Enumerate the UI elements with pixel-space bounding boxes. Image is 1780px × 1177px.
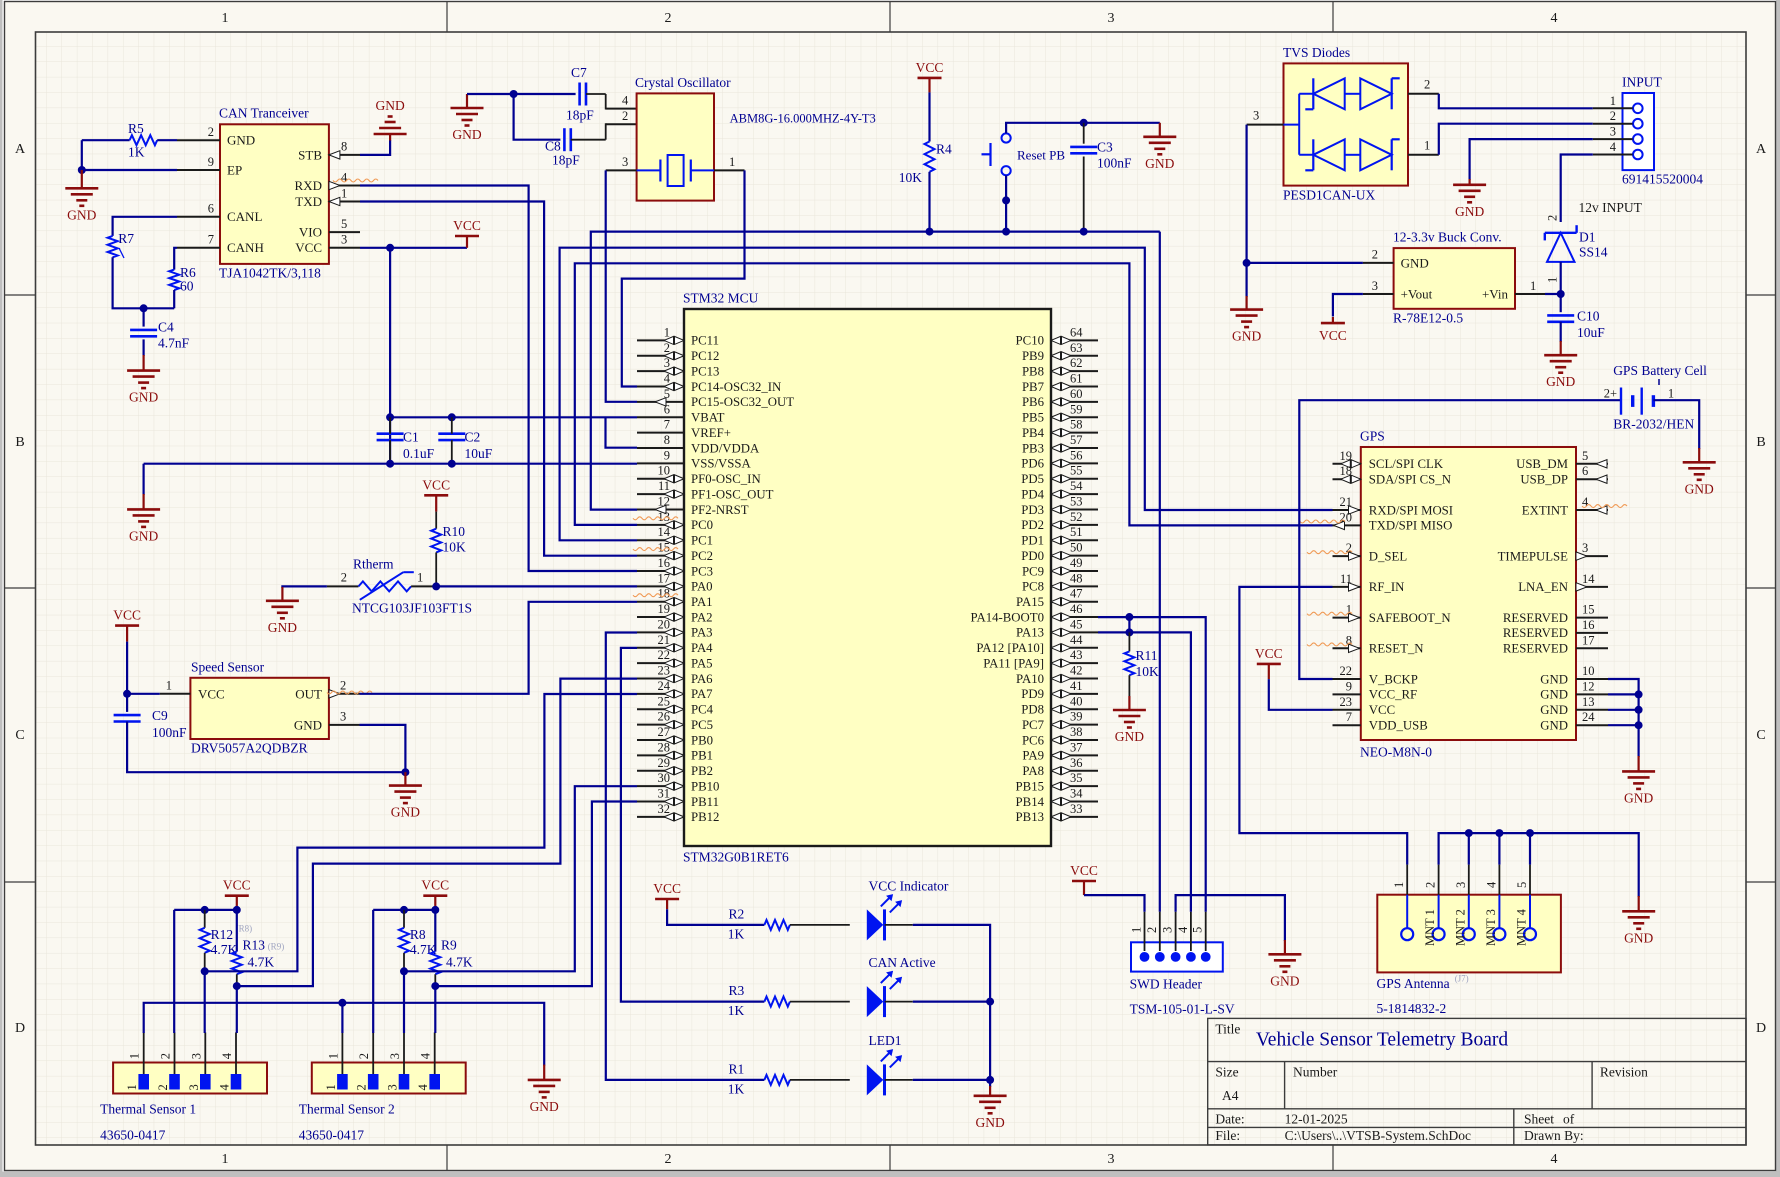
svg-text:1: 1	[1668, 387, 1674, 401]
svg-text:VCC_RF: VCC_RF	[1369, 688, 1417, 702]
svg-text:Crystal Oscillator: Crystal Oscillator	[635, 75, 731, 90]
svg-text:GND: GND	[1540, 719, 1568, 733]
speed pin 3 stub GND	[329, 724, 360, 726]
antenna pin 2	[1433, 928, 1445, 940]
INPUT pin 2	[1633, 119, 1643, 129]
antenna pin 4	[1493, 928, 1505, 940]
TVS internal bus	[1284, 94, 1314, 155]
svg-text:1K: 1K	[728, 1003, 745, 1018]
wire C10 to ground	[1560, 322, 1562, 342]
svg-text:1: 1	[1610, 94, 1616, 108]
wire C8 to crystal pin 2	[571, 139, 606, 141]
svg-text:5: 5	[341, 217, 347, 231]
svg-text:PC13: PC13	[691, 364, 719, 378]
power ground at Rtherm	[281, 587, 283, 601]
speed sensor U3 DRV5057A2QDBZR	[190, 678, 329, 739]
thermal 2 pin 1	[337, 1074, 348, 1090]
svg-text:VCC: VCC	[113, 608, 141, 623]
svg-text:PA6: PA6	[691, 672, 713, 686]
wire VCC rail thermal 1	[174, 909, 237, 911]
svg-text:2: 2	[355, 1084, 369, 1090]
junction	[986, 1076, 994, 1084]
svg-text:VCC: VCC	[223, 878, 251, 893]
svg-text:3: 3	[187, 1084, 201, 1090]
wire TVS pin 3 down to buck ground	[1247, 125, 1363, 263]
MCU pin 3 PC13	[637, 370, 684, 372]
svg-text:PA3: PA3	[691, 626, 713, 640]
svg-text:22: 22	[1340, 664, 1353, 678]
svg-text:3: 3	[1161, 927, 1175, 933]
crystal pin 3 stub	[606, 169, 637, 171]
svg-text:GND: GND	[1270, 973, 1299, 988]
wire R1 to LED	[790, 1079, 850, 1081]
svg-text:60: 60	[180, 279, 194, 294]
svg-text:Vehicle Sensor Telemetry Board: Vehicle Sensor Telemetry Board	[1256, 1030, 1508, 1051]
MCU pin 23 PA6	[637, 678, 684, 680]
resistor R12 4.7K	[204, 910, 206, 928]
svg-text:3: 3	[1108, 11, 1115, 26]
svg-text:2: 2	[664, 341, 670, 355]
wire R7 down to junction rail	[113, 257, 175, 308]
svg-text:1: 1	[1130, 927, 1144, 933]
GPS pin 17 RESERVED	[1576, 647, 1608, 649]
svg-text:C: C	[1756, 728, 1765, 743]
svg-text:PB7: PB7	[1022, 380, 1045, 394]
svg-text:R7: R7	[118, 231, 134, 246]
svg-text:GND: GND	[1455, 204, 1484, 219]
svg-text:3: 3	[622, 155, 628, 169]
svg-text:PC15-OSC32_OUT: PC15-OSC32_OUT	[691, 395, 794, 409]
svg-text:1: 1	[664, 325, 670, 339]
MCU pin 10 PF0-OSC_IN	[637, 478, 684, 480]
wire VDD branch to MCU pin 8	[606, 417, 638, 447]
svg-text:PC3: PC3	[691, 564, 713, 578]
power ground below speed sensor	[404, 772, 406, 785]
svg-text:NEO-M8N-0: NEO-M8N-0	[1360, 745, 1432, 760]
TVS pin 1 stub	[1408, 154, 1439, 156]
junction	[1635, 706, 1643, 714]
svg-text:NTCG103JF103FT1S: NTCG103JF103FT1S	[352, 601, 472, 616]
GPS pin 16 RESERVED	[1576, 632, 1608, 634]
svg-text:R11: R11	[1136, 648, 1158, 663]
thermal 1 pin 3	[200, 1074, 211, 1090]
MCU pin 60 PB6	[1051, 401, 1098, 403]
svg-text:GND: GND	[375, 98, 404, 113]
svg-text:Speed Sensor: Speed Sensor	[191, 660, 265, 675]
svg-text:VCC Indicator: VCC Indicator	[869, 879, 949, 894]
wire NRST rail to SWD header pin 2	[1159, 232, 1161, 912]
GPS pin 8 RESET_N	[1333, 647, 1361, 649]
wire speed OUT to MCU PA1 pin 18	[360, 602, 638, 694]
svg-text:VCC: VCC	[453, 218, 481, 233]
MCU pin 19 PA2	[637, 616, 684, 618]
svg-text:3: 3	[189, 1053, 203, 1059]
capacitor C10 10uF	[1547, 314, 1574, 317]
MCU pin 54 PD4	[1051, 493, 1098, 495]
svg-text:691415520004: 691415520004	[1622, 172, 1703, 187]
MCU pin 41 PD9	[1051, 693, 1098, 695]
thermal 1 pin 4	[231, 1074, 242, 1090]
MCU pin 15 PC2	[637, 555, 684, 557]
compile squiggle GPS pin 4 EXTINT	[1582, 505, 1627, 508]
svg-text:PA13: PA13	[1016, 626, 1044, 640]
svg-text:2: 2	[1424, 882, 1438, 888]
svg-text:D: D	[15, 1021, 25, 1036]
wire thermal2 pin3 sense to MCU PB10 pin 30	[404, 786, 637, 971]
svg-text:5-1814832-2: 5-1814832-2	[1377, 1001, 1447, 1016]
resistor R3 1K	[764, 997, 790, 1007]
svg-text:2: 2	[156, 1084, 170, 1090]
wire ground to C7	[467, 93, 576, 95]
svg-text:2: 2	[341, 571, 347, 585]
MCU pin 40 PD8	[1051, 708, 1098, 710]
junction	[400, 906, 408, 914]
wire EP pin 9	[82, 169, 177, 171]
GPS pin 7 VDD_USB	[1333, 724, 1361, 726]
power ground at INPUT pin 3	[1468, 179, 1470, 185]
svg-text:R10: R10	[443, 524, 466, 539]
junction	[986, 998, 994, 1006]
svg-text:1K: 1K	[728, 927, 745, 942]
MCU pin 24 PA7	[637, 693, 684, 695]
wire R2 to LED	[790, 924, 850, 926]
wire R8 net down to pin 3	[403, 971, 405, 1033]
junction	[1635, 721, 1643, 729]
MCU pin 38 PC6	[1051, 739, 1098, 741]
wire VCC junction down to decoupling rail	[389, 248, 391, 464]
svg-text:ABM8G-16.000MHZ-4Y-T3: ABM8G-16.000MHZ-4Y-T3	[730, 112, 876, 126]
power ground below R11	[1128, 696, 1130, 710]
svg-text:A: A	[1756, 142, 1767, 157]
svg-text:3: 3	[341, 233, 347, 247]
wire R9 net down to pin 4	[434, 986, 436, 1033]
GPS pin 18 SDA/SPI CS_N	[1333, 478, 1361, 480]
svg-text:A4: A4	[1222, 1088, 1239, 1103]
capacitor C2 10uF	[438, 432, 465, 435]
svg-text:R4: R4	[936, 142, 952, 157]
capacitor C7 18pF	[578, 83, 581, 106]
svg-text:63: 63	[1070, 341, 1083, 355]
compile squiggle at MCU pin 15	[633, 548, 678, 551]
svg-text:C10: C10	[1577, 309, 1600, 324]
svg-text:USB_DM: USB_DM	[1516, 457, 1568, 471]
MCU pin 7 VREF+	[637, 432, 684, 434]
svg-text:62: 62	[1070, 356, 1083, 370]
capacitor C8 18pF	[563, 128, 566, 151]
svg-text:VCC: VCC	[1070, 863, 1098, 878]
CAN pin 6 stub	[177, 216, 220, 218]
svg-text:4: 4	[220, 1052, 234, 1059]
svg-text:TSM-105-01-L-SV: TSM-105-01-L-SV	[1130, 1002, 1235, 1017]
MCU pin 47 PA15	[1051, 601, 1098, 603]
compile squiggle at RXD pin 4	[333, 179, 378, 182]
junction	[448, 413, 456, 421]
svg-text:2: 2	[1372, 248, 1378, 262]
wire TVS pin 1 to INPUT pin 2	[1439, 124, 1593, 155]
svg-text:10K: 10K	[1136, 664, 1160, 679]
GPS pin 5 USB_DM	[1576, 463, 1608, 465]
junction	[400, 967, 408, 975]
svg-text:USB_DP: USB_DP	[1520, 473, 1568, 487]
MCU pin 31 PB11	[637, 801, 684, 803]
SWD pin 3	[1171, 952, 1181, 962]
wire LED2 to cathode rail	[885, 1001, 913, 1003]
compile squiggle at MCU pin 13	[633, 517, 678, 520]
svg-text:6: 6	[208, 202, 214, 216]
svg-text:RESERVED: RESERVED	[1503, 611, 1568, 625]
junction	[432, 582, 440, 590]
GPS pin 1 SAFEBOOT_N	[1333, 617, 1361, 619]
compile squiggle GPS pin 2	[1307, 551, 1352, 554]
wire VCC to GPS VCC pin 23	[1269, 679, 1333, 710]
svg-text:GND: GND	[1232, 329, 1261, 344]
svg-text:PC4: PC4	[691, 703, 714, 717]
svg-text:VCC: VCC	[421, 878, 449, 893]
svg-text:PA14-BOOT0: PA14-BOOT0	[971, 610, 1044, 624]
svg-text:R5: R5	[128, 121, 144, 136]
svg-text:7: 7	[664, 418, 670, 432]
CAN pin 1 stub TXD	[329, 201, 360, 203]
svg-text:R2: R2	[729, 907, 745, 922]
wire battery minus to ground	[1653, 400, 1699, 449]
svg-text:PA4: PA4	[691, 641, 713, 655]
MCU pin 11 PF1-OSC_OUT	[637, 493, 684, 495]
svg-text:PB0: PB0	[691, 733, 713, 747]
compile squiggle GPS pin 1	[1307, 612, 1352, 615]
svg-text:20: 20	[658, 617, 671, 631]
MCU pin 20 PA3	[637, 631, 684, 633]
svg-text:3: 3	[1582, 541, 1588, 555]
resistor R1 1K	[764, 1075, 790, 1085]
svg-text:12: 12	[1582, 679, 1595, 693]
svg-text:Size: Size	[1215, 1064, 1238, 1079]
svg-text:PC12: PC12	[691, 349, 719, 363]
resistor R5 1K	[82, 139, 130, 141]
svg-text:PD8: PD8	[1021, 703, 1044, 717]
svg-text:C2: C2	[465, 430, 481, 445]
svg-text:PF0-OSC_IN: PF0-OSC_IN	[691, 472, 761, 486]
MCU pin 48 PC8	[1051, 585, 1098, 587]
svg-text:3: 3	[1454, 882, 1468, 888]
thermal sensor 2 connector TS2	[312, 1063, 466, 1094]
svg-text:Title: Title	[1215, 1021, 1240, 1036]
MCU pin 56 PD6	[1051, 462, 1098, 464]
MCU pin 57 PB3	[1051, 447, 1098, 449]
svg-text:PD2: PD2	[1021, 518, 1044, 532]
capacitor C1 0.1uF	[377, 432, 404, 435]
junction	[386, 460, 394, 468]
svg-text:C1: C1	[403, 430, 419, 445]
svg-text:1: 1	[729, 155, 735, 169]
wire thermal2 pin 1 drop	[341, 1003, 343, 1033]
svg-text:47: 47	[1070, 587, 1083, 601]
svg-text:3: 3	[1372, 279, 1378, 293]
wire buck Vout to VCC	[1333, 294, 1363, 317]
GPS pin 4 EXTINT	[1576, 509, 1608, 511]
MCU pin 51 PD1	[1051, 539, 1098, 541]
svg-text:Date:: Date:	[1215, 1111, 1244, 1126]
svg-text:PC8: PC8	[1022, 580, 1044, 594]
svg-text:36: 36	[1070, 756, 1083, 770]
MCU pin 13 PC0	[637, 524, 684, 526]
compile squiggle GPS pin 20	[1300, 520, 1345, 523]
svg-text:PB4: PB4	[1022, 426, 1045, 440]
svg-text:CANL: CANL	[227, 209, 262, 224]
thermal 2 pin 3	[399, 1074, 410, 1090]
power ground right of reset rail	[1159, 123, 1161, 137]
wire GPS GND pins to ground	[1608, 679, 1639, 757]
resistor R7	[108, 236, 118, 257]
junction	[201, 967, 209, 975]
svg-text:TVS Diodes: TVS Diodes	[1283, 45, 1350, 60]
GPS pin 15 RESERVED	[1576, 617, 1608, 619]
wire INPUT pin 3 to ground	[1470, 139, 1593, 180]
svg-text:D: D	[1756, 1021, 1766, 1036]
GPS pin 21 RXD/SPI MOSI	[1333, 509, 1361, 511]
input connector J2 691415520004	[1623, 93, 1655, 170]
svg-text:MNT 3: MNT 3	[1484, 909, 1498, 946]
MCU pin 18 PA1	[637, 601, 684, 603]
svg-text:PD6: PD6	[1021, 457, 1044, 471]
svg-text:GND: GND	[1685, 481, 1714, 496]
wire SWD pin 3 to ground	[1176, 895, 1285, 941]
wire crystal pin 3 to MCU PC15 pin 5	[606, 170, 637, 401]
junction	[1243, 259, 1251, 267]
junction	[1635, 690, 1643, 698]
svg-text:9: 9	[1346, 679, 1352, 693]
CAN pin 8 stub STB	[329, 154, 360, 156]
TVS internal pair A	[1312, 78, 1314, 109]
svg-text:53: 53	[1070, 494, 1083, 508]
MCU pin 2 PC12	[637, 355, 684, 357]
svg-text:4: 4	[416, 1084, 430, 1091]
junction	[140, 304, 148, 312]
MCU pin 58 PB4	[1051, 432, 1098, 434]
svg-text:C8: C8	[545, 139, 561, 154]
GPS pin 11 RF_IN	[1333, 586, 1361, 588]
svg-text:1: 1	[324, 1084, 338, 1090]
junction	[338, 999, 346, 1007]
MCU pin 34 PB14	[1051, 801, 1098, 803]
svg-text:B: B	[1756, 435, 1765, 450]
svg-text:RESERVED: RESERVED	[1503, 626, 1568, 640]
svg-text:4: 4	[419, 1052, 433, 1059]
svg-text:PD4: PD4	[1021, 487, 1044, 501]
power ground above STB (mirrored)	[389, 134, 391, 141]
wire Rtherm pin1 to MCU PA0 pin 17	[436, 585, 637, 587]
wire antenna mounts to ground	[1439, 833, 1639, 897]
power ground below C4	[143, 339, 145, 356]
svg-text:23: 23	[658, 664, 671, 678]
svg-text:R1: R1	[729, 1062, 745, 1077]
svg-text:B: B	[15, 435, 24, 450]
MCU pin 42 PA10	[1051, 678, 1098, 680]
svg-text:61: 61	[1070, 372, 1083, 386]
capacitor C4 4.7nF	[143, 308, 145, 326]
power ground for GPS	[1637, 756, 1639, 771]
antenna pin 3	[1463, 928, 1475, 940]
MCU pin 50 PD0	[1051, 555, 1098, 557]
crystal oscillator Y1 ABM8G	[637, 93, 714, 200]
svg-text:16: 16	[1582, 618, 1595, 632]
wire thermal1 pin4 sense to MCU PA6 pin 23	[237, 679, 637, 987]
thermal 1 pin 1	[138, 1074, 149, 1090]
svg-text:VREF+: VREF+	[691, 426, 731, 440]
svg-text:17: 17	[658, 571, 671, 585]
svg-text:+Vout: +Vout	[1401, 286, 1433, 301]
svg-text:EP: EP	[227, 162, 242, 177]
svg-text:0.1uF: 0.1uF	[403, 446, 435, 461]
power ground left end of rail	[143, 464, 145, 495]
svg-text:PB1: PB1	[691, 749, 713, 763]
svg-text:TJA1042TK/3,118: TJA1042TK/3,118	[219, 266, 321, 281]
wire VCC down to pin1 junction	[127, 642, 160, 694]
crystal pin 4 stub	[606, 108, 637, 110]
svg-text:Revision: Revision	[1600, 1064, 1648, 1079]
svg-text:R12: R12	[211, 927, 234, 942]
wire R4 to NRST rail	[928, 172, 930, 232]
svg-text:4: 4	[664, 372, 671, 386]
junction	[431, 982, 439, 990]
svg-text:42: 42	[1070, 664, 1083, 678]
antenna pin 5	[1524, 928, 1536, 940]
MCU pin 64 PC10	[1051, 339, 1098, 341]
wire R6 down to junction	[173, 290, 175, 308]
wire MNT3 drop	[1498, 833, 1500, 865]
svg-text:10K: 10K	[899, 170, 923, 185]
svg-text:OUT: OUT	[295, 686, 322, 701]
TVS pin 2 stub	[1408, 93, 1439, 95]
svg-text:1: 1	[417, 571, 423, 585]
svg-text:1: 1	[1530, 279, 1536, 293]
svg-text:26: 26	[658, 710, 671, 724]
svg-text:STM32 MCU: STM32 MCU	[683, 291, 759, 306]
power ground for antenna	[1638, 896, 1640, 911]
wire D1 anode to Vin junction	[1560, 262, 1562, 312]
junction	[1002, 196, 1010, 204]
svg-text:PB2: PB2	[691, 764, 713, 778]
svg-text:3: 3	[388, 1053, 402, 1059]
resistor R11 10K	[1128, 632, 1130, 651]
junction	[1125, 628, 1133, 636]
svg-text:38: 38	[1070, 725, 1083, 739]
svg-text:VCC: VCC	[295, 240, 322, 255]
junction	[448, 460, 456, 468]
svg-text:8: 8	[341, 140, 347, 154]
MCU pin 45 PA13	[1051, 631, 1098, 633]
svg-text:+Vin: +Vin	[1482, 286, 1509, 301]
svg-text:GND: GND	[1540, 672, 1568, 686]
wire ground rail to MCU VSS pin 9	[144, 463, 637, 465]
MCU pin 6 VBAT	[637, 416, 684, 418]
svg-text:PA7: PA7	[691, 687, 713, 701]
svg-text:5: 5	[1582, 449, 1588, 463]
GPS pin 23 VCC	[1333, 709, 1361, 711]
wire R5 to EP junction	[81, 140, 83, 170]
MCU pin 9 VSS/VSSA	[637, 462, 684, 464]
svg-text:GND: GND	[129, 528, 158, 543]
junction	[123, 690, 131, 698]
GPS pin 10 GND	[1576, 678, 1608, 680]
svg-text:TIMEPULSE: TIMEPULSE	[1498, 549, 1569, 563]
antenna pin 1	[1401, 928, 1413, 940]
MCU pin 59 PB5	[1051, 416, 1098, 418]
wire Rtherm pin2 to ground	[282, 586, 327, 588]
junction	[1526, 829, 1534, 837]
svg-text:SAFEBOOT_N: SAFEBOOT_N	[1369, 611, 1451, 625]
wire GPS V_BCKP to battery	[1299, 400, 1621, 679]
svg-text:GND: GND	[975, 1115, 1004, 1130]
